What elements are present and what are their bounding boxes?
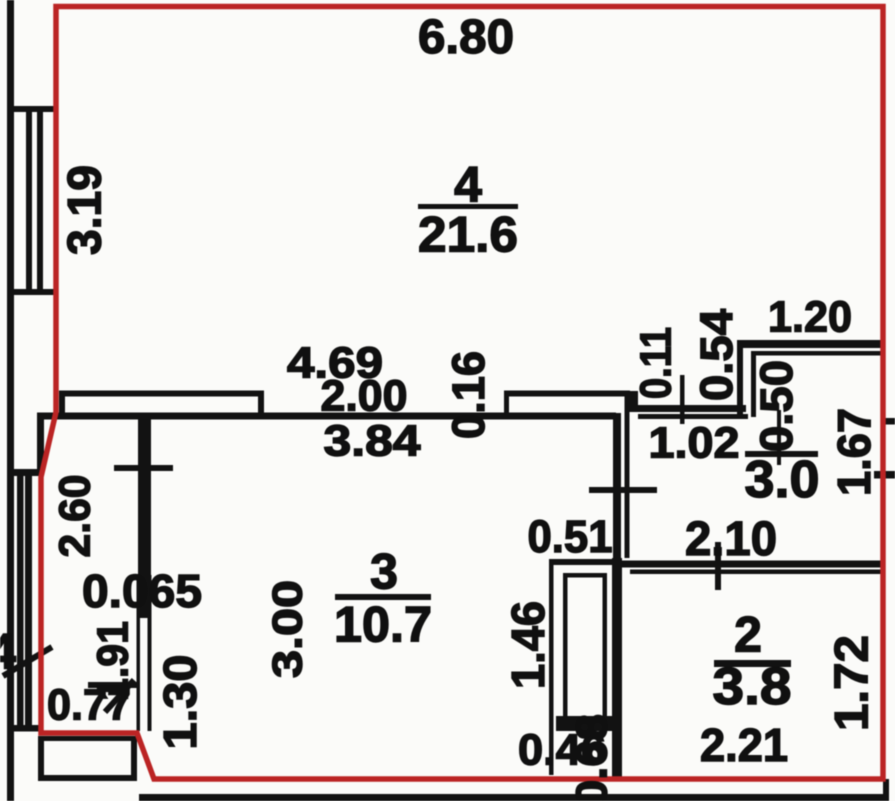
svg-text:3.8: 3.8 — [713, 658, 792, 716]
svg-text:0.51: 0.51 — [528, 511, 613, 562]
svg-text:4: 4 — [0, 624, 16, 680]
svg-text:10.7: 10.7 — [334, 597, 432, 653]
svg-text:0.54: 0.54 — [691, 309, 742, 401]
svg-text:3.00: 3.00 — [264, 580, 311, 678]
svg-text:2: 2 — [734, 607, 762, 663]
svg-text:3.19: 3.19 — [57, 165, 110, 255]
svg-text:1.46: 1.46 — [502, 601, 554, 689]
svg-text:0.16: 0.16 — [443, 351, 494, 439]
svg-text:0.50: 0.50 — [751, 360, 802, 452]
svg-text:21.6: 21.6 — [418, 207, 518, 263]
svg-text:0.065: 0.065 — [82, 565, 202, 617]
svg-text:2.60: 2.60 — [50, 475, 99, 558]
svg-text:1.91: 1.91 — [88, 621, 137, 701]
svg-text:4: 4 — [454, 157, 482, 213]
svg-text:2.21: 2.21 — [700, 719, 788, 771]
svg-text:1.67: 1.67 — [828, 408, 880, 496]
svg-text:1.20: 1.20 — [768, 292, 852, 341]
svg-text:3: 3 — [370, 544, 398, 600]
svg-text:6.80: 6.80 — [418, 11, 514, 64]
svg-text:1.30: 1.30 — [154, 655, 206, 750]
svg-text:1.02: 1.02 — [649, 418, 740, 467]
svg-text:2.10: 2.10 — [685, 513, 777, 566]
svg-text:2.00: 2.00 — [321, 371, 408, 420]
svg-text:3.84: 3.84 — [324, 416, 422, 465]
svg-text:1.72: 1.72 — [824, 635, 877, 731]
svg-text:3.0: 3.0 — [745, 451, 820, 509]
svg-text:0.11: 0.11 — [631, 327, 680, 399]
svg-text:0.68: 0.68 — [567, 714, 616, 801]
